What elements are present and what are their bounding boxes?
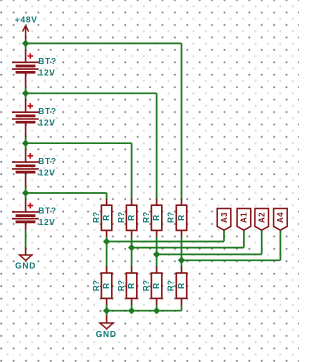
junction node tap 12V (22, 189, 29, 196)
resistor R? bottom row #3 (151, 267, 161, 305)
wire bottom resistor 1 to bus (106, 305, 108, 311)
svg-text:A4: A4 (276, 212, 285, 223)
resistor R? bottom row #2 (126, 267, 136, 305)
wire bottom resistor 3 to bus (156, 305, 158, 311)
wire battery column seg4 (25, 187, 27, 200)
wire tap1 horizontal (26, 42, 182, 44)
wire bottom bus (107, 310, 182, 312)
wire tap3 vertical (131, 143, 133, 200)
svg-text:A3: A3 (220, 212, 229, 223)
svg-text:12V: 12V (39, 217, 56, 227)
global label A4 (274, 209, 288, 231)
svg-text:R: R (152, 214, 161, 220)
global label A3 (217, 209, 231, 231)
svg-text:R?: R? (167, 280, 176, 291)
wire bus to ground (106, 311, 108, 315)
wire divider tap 3 horizontal (157, 253, 262, 255)
wire tap2 horizontal (26, 92, 157, 94)
resistor R? bottom row #4 (176, 267, 186, 305)
resistor R? top row #4 (176, 199, 186, 237)
wire column 3 between resistor rows (156, 237, 158, 267)
junction bottom bus 1 (103, 307, 110, 314)
svg-text:R: R (177, 283, 186, 289)
wire bottom resistor 4 to bus (181, 305, 183, 311)
svg-text:R?: R? (92, 280, 101, 291)
wire column 2 between resistor rows (131, 237, 133, 267)
svg-text:R?: R? (117, 212, 126, 223)
junction node tap 24V (22, 140, 29, 147)
global label A2 (255, 209, 269, 231)
junction node +48V (22, 40, 29, 47)
svg-text:R?: R? (117, 280, 126, 291)
svg-text:R: R (127, 283, 136, 289)
svg-text:BT?: BT? (38, 56, 56, 66)
wire divider tap 4 vertical to label (279, 230, 281, 260)
resistor R? top row #2 (126, 199, 136, 237)
junction divider tap 3 (153, 251, 160, 258)
junction bottom bus 3 (153, 307, 160, 314)
svg-text:R?: R? (142, 212, 151, 223)
svg-text:BT?: BT? (38, 106, 56, 116)
wire divider tap 3 vertical to label (261, 230, 263, 254)
wire column 1 between resistor rows (106, 237, 108, 267)
svg-text:12V: 12V (39, 68, 56, 78)
junction bottom bus 2 (128, 307, 135, 314)
wire bottom resistor 2 to bus (131, 305, 133, 311)
wire battery column seg2 (25, 87, 27, 100)
resistor R? bottom row #1 (101, 267, 111, 305)
svg-text:GND: GND (96, 329, 117, 339)
svg-text:A1: A1 (240, 212, 249, 223)
junction divider tap 4 (178, 257, 185, 264)
svg-text:12V: 12V (39, 167, 56, 177)
svg-text:+48V: +48V (15, 15, 38, 25)
wire battery column seg3 (25, 137, 27, 150)
battery BT? #4 12V (12, 199, 39, 230)
battery BT? #2 12V (12, 100, 39, 137)
svg-text:R?: R? (142, 280, 151, 291)
wire battery column seg1 (25, 43, 27, 49)
svg-text:R?: R? (167, 212, 176, 223)
svg-text:12V: 12V (39, 118, 56, 128)
svg-text:R: R (102, 283, 111, 289)
wire divider tap 2 vertical to label (243, 230, 245, 247)
battery BT? #3 12V (12, 150, 39, 187)
wire tap4 vertical (106, 193, 108, 200)
svg-text:R: R (127, 214, 136, 220)
ground GND under battery stack (20, 247, 32, 260)
wire divider tap 2 horizontal (132, 247, 244, 249)
wire tap3 horizontal (26, 142, 132, 144)
wire tap1 vertical (181, 43, 183, 200)
svg-text:GND: GND (15, 261, 36, 271)
wire battery bottom to ground (25, 230, 27, 247)
power symbol +48V (23, 26, 29, 44)
svg-text:R?: R? (92, 212, 101, 223)
svg-text:A2: A2 (258, 212, 267, 223)
svg-text:BT?: BT? (38, 156, 56, 166)
wire divider tap 4 horizontal (182, 259, 281, 261)
wire tap2 vertical (156, 93, 158, 200)
wire tap4 horizontal (26, 192, 107, 194)
svg-text:R: R (152, 283, 161, 289)
resistor R? top row #3 (151, 199, 161, 237)
resistor R? top row #1 (101, 199, 111, 237)
svg-text:R: R (102, 214, 111, 220)
wire divider tap 1 vertical to label (223, 230, 225, 241)
svg-text:BT?: BT? (38, 206, 56, 216)
global label A1 (237, 209, 251, 231)
battery BT? #1 12V (12, 50, 39, 87)
wire column 4 between resistor rows (181, 237, 183, 267)
junction divider tap 1 (103, 238, 110, 245)
wire divider tap 1 horizontal (107, 241, 224, 243)
ground GND under divider (100, 315, 113, 329)
junction node tap 36V (22, 90, 29, 97)
junction divider tap 2 (128, 244, 135, 251)
svg-text:R: R (177, 214, 186, 220)
